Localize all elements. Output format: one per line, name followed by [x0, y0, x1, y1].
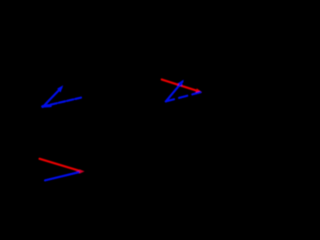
arrowhead of ray B2: [178, 80, 184, 87]
sketch A: blue angle, top-left: [42, 85, 81, 107]
arrowhead at convergence tip C: [79, 169, 84, 173]
wire: blue steep ray A1 from vertex up-right: [43, 88, 62, 108]
background canvas: [0, 0, 225, 218]
wire: red line C1 descending to tip: [40, 159, 82, 171]
wire: blue dashed ray B3 from vertex to red arrow tip: [166, 92, 201, 101]
arrowhead of red arrow B1: [195, 88, 202, 93]
wire: blue steep ray B2 from vertex up-right: [166, 82, 183, 102]
wire: blue lower ray A2 from vertex to the right (textured): [42, 98, 81, 107]
arrowhead of ray A1: [57, 85, 63, 92]
wire: blue line C2 ascending to tip: [45, 172, 81, 181]
wire: blue lower ray A2 start bar at vertex: [43, 105, 51, 108]
sketch B: red arrow with blue angle, top-right: [162, 80, 202, 102]
sketch C: red and blue lines converging, bottom-left: [40, 159, 85, 181]
wire: red arrow shaft B1: [162, 80, 199, 92]
